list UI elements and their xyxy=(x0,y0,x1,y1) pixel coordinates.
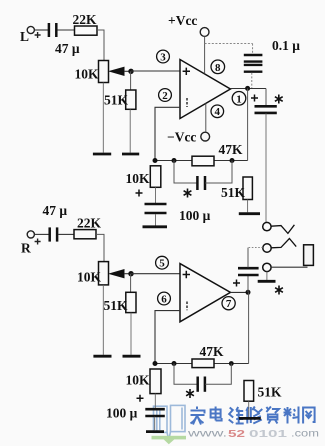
svg-text:8: 8 xyxy=(215,62,221,74)
wire pin6 input xyxy=(155,311,180,364)
svg-text:L: L xyxy=(20,29,29,44)
svg-text:3: 3 xyxy=(160,51,166,63)
wire 22K to pot xyxy=(97,30,104,61)
ground (100u R) xyxy=(146,430,164,433)
svg-text:100 μ: 100 μ xyxy=(106,406,138,421)
WATERMARK xyxy=(152,405,320,444)
wire C1 to R 22K xyxy=(57,29,74,31)
watermark logo open book xyxy=(154,405,186,439)
watermark url www.520101.com xyxy=(186,428,319,441)
资 xyxy=(266,407,268,410)
node: wiper junction R xyxy=(128,271,133,276)
ground (51K L) xyxy=(239,212,260,215)
capacitor 47u (R input) xyxy=(43,203,68,242)
resistor 22K (L) xyxy=(73,12,98,35)
potentiometer 10K (R) xyxy=(77,262,131,285)
resistor 51K (R input) xyxy=(104,292,137,313)
wire ring to output cap R (dotted) xyxy=(249,247,263,249)
wire Vcc rail to bypass caps xyxy=(205,43,253,45)
star mark output L xyxy=(275,95,283,104)
svg-text:52: 52 xyxy=(228,428,245,440)
jack ring contact xyxy=(263,239,296,253)
ground (L pot) xyxy=(93,153,111,156)
svg-text:+Vcc: +Vcc xyxy=(168,13,197,28)
svg-text:10K: 10K xyxy=(126,171,151,186)
node fb R right xyxy=(229,361,234,366)
svg-text:51K: 51K xyxy=(104,93,129,108)
capacitor feedback R (star) xyxy=(174,364,231,392)
svg-text:www.: www. xyxy=(186,428,227,440)
wire output R down to feedback xyxy=(248,292,250,363)
pin 1 label xyxy=(232,92,246,106)
node output R xyxy=(246,290,251,295)
node fb L mid xyxy=(172,158,177,163)
resistor 47K feedback R xyxy=(192,344,224,368)
svg-text:−Vcc: −Vcc xyxy=(167,130,196,145)
svg-text:22K: 22K xyxy=(73,12,98,27)
star mark feedback cap R xyxy=(186,389,194,398)
修 xyxy=(246,407,248,411)
电 xyxy=(211,410,221,418)
resistor 10K feedback L xyxy=(126,166,161,188)
pin 7 label xyxy=(222,297,235,311)
watermark chinese text 家电维修资料网 xyxy=(191,407,315,425)
pin 3 label xyxy=(157,50,170,63)
svg-text:6: 6 xyxy=(161,293,167,305)
svg-text:0101: 0101 xyxy=(249,428,287,440)
pin 6 label xyxy=(158,292,171,305)
wire pin4 to -Vcc xyxy=(205,103,207,132)
resistor 51K (L input) xyxy=(104,90,136,109)
ground (51K R) xyxy=(239,417,261,420)
svg-text:100 μ: 100 μ xyxy=(179,208,211,223)
potentiometer 10K (L) xyxy=(75,61,132,83)
node fb R left xyxy=(153,361,158,366)
pin 2 label xyxy=(159,89,172,102)
pin 4 label xyxy=(211,105,224,118)
star mark feedback cap L xyxy=(184,189,192,198)
capacitor 47u (L input) xyxy=(49,23,80,56)
wire pot R bottom to ground xyxy=(102,285,104,355)
jack sleeve contact xyxy=(263,263,308,271)
网 xyxy=(303,408,315,424)
capacitor 100u L xyxy=(145,187,211,225)
ground (jack) xyxy=(258,272,276,282)
wire junction down to 51K xyxy=(130,71,132,90)
star mark jack xyxy=(275,286,283,295)
维 xyxy=(229,408,233,418)
plus mark 100u R xyxy=(137,395,144,402)
resistor 51K feedback L xyxy=(221,177,252,212)
feedback wire R xyxy=(155,363,249,365)
svg-text:R: R xyxy=(21,241,31,256)
node fb R mid xyxy=(172,361,177,366)
svg-text:7: 7 xyxy=(226,298,232,310)
svg-text:10K: 10K xyxy=(126,373,151,388)
jack plug body xyxy=(304,245,314,266)
wire pot bottom to ground xyxy=(102,83,104,153)
svg-text:22K: 22K xyxy=(77,216,102,231)
node fb L right xyxy=(230,158,235,163)
svg-text:47 μ: 47 μ xyxy=(55,41,80,56)
svg-text:51K: 51K xyxy=(104,298,129,313)
node output L xyxy=(245,86,250,91)
wire C to 22K R xyxy=(58,233,74,235)
家 xyxy=(196,407,198,410)
wire junction down to 51K R xyxy=(130,274,132,293)
op-amp U1a xyxy=(180,60,230,119)
svg-text:2: 2 xyxy=(162,90,168,102)
input terminal L xyxy=(20,26,41,44)
svg-text:0.1 μ: 0.1 μ xyxy=(272,38,300,53)
ground (R 51K) xyxy=(123,355,141,358)
plus mark 100u L xyxy=(136,190,143,197)
resistor 22K (R) xyxy=(74,216,102,239)
resistor 47K feedback L xyxy=(192,142,243,166)
+Vcc terminal xyxy=(168,13,209,36)
pin 5 label xyxy=(156,256,169,269)
wire wiper to pin3 xyxy=(131,70,180,72)
wire pin2 input xyxy=(155,107,180,160)
wire L to C1 xyxy=(34,29,48,31)
svg-text:.com: .com xyxy=(291,428,319,440)
resistor 10K feedback R xyxy=(126,369,162,394)
wire output L down to feedback xyxy=(247,88,249,160)
node: wiper junction xyxy=(128,69,133,74)
wire output cap L down to jack xyxy=(265,113,267,222)
svg-text:47K: 47K xyxy=(200,344,225,359)
input terminal R xyxy=(21,231,41,256)
svg-text:10K: 10K xyxy=(77,270,102,285)
wire output pin1 xyxy=(230,88,266,90)
wire wiper to pin5 xyxy=(131,273,180,275)
ground (L 51K) xyxy=(122,153,139,156)
-Vcc terminal xyxy=(167,130,210,145)
wire 51K R to ground xyxy=(130,313,132,355)
svg-text:47K: 47K xyxy=(219,142,244,157)
capacitors 0.1u bypass xyxy=(244,38,300,88)
wire 51K to ground xyxy=(129,109,131,152)
svg-text:51K: 51K xyxy=(258,385,283,400)
svg-text:4: 4 xyxy=(215,106,221,118)
wire 22K to pot R xyxy=(96,234,104,261)
jack tip contact xyxy=(263,222,295,233)
svg-text:5: 5 xyxy=(159,258,165,270)
capacitor feedback L (star) xyxy=(174,161,232,191)
plus mark output R xyxy=(233,280,240,287)
svg-text:47 μ: 47 μ xyxy=(43,203,68,218)
plus mark output L xyxy=(251,95,258,102)
capacitor output R (up to jack) xyxy=(238,248,259,293)
svg-text:51K: 51K xyxy=(221,185,246,200)
resistor 51K feedback R xyxy=(244,381,282,418)
wire output pin7 xyxy=(230,291,248,293)
op-amp U1b xyxy=(180,264,230,322)
pin 8 label xyxy=(211,60,225,74)
wire R to C xyxy=(34,233,48,235)
capacitor 100u R xyxy=(106,394,165,431)
ground (100u L) xyxy=(143,225,168,228)
watermark green swoosh xyxy=(152,436,187,444)
node fb L left xyxy=(153,158,158,163)
capacitor output L (star) xyxy=(255,89,277,113)
料 xyxy=(287,407,289,424)
svg-text:10K: 10K xyxy=(75,67,100,82)
wire Vcc to pin8 xyxy=(204,36,206,73)
svg-text:1: 1 xyxy=(236,93,242,105)
ground (R pot) xyxy=(93,355,111,358)
feedback wire L xyxy=(155,160,248,162)
